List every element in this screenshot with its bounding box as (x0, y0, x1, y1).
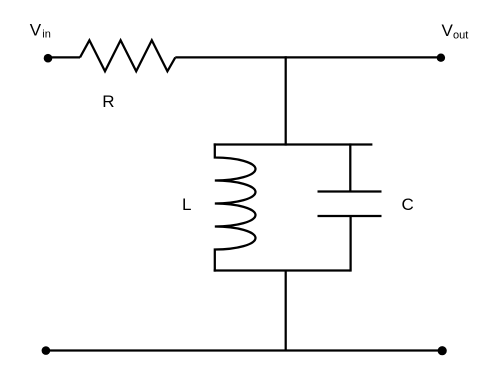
wire top rail: resistor to Vout terminal (175, 56, 441, 58)
wire junction drop: top rail to tank top (285, 56, 287, 145)
svg-text:L: L (182, 195, 191, 214)
resistor R (80, 40, 175, 71)
svg-text:R: R (102, 92, 114, 111)
wire input: Vin terminal to resistor (48, 56, 80, 58)
wire tank bottom (214, 269, 351, 271)
svg-text:in: in (42, 28, 51, 40)
svg-text:V: V (30, 20, 42, 39)
svg-text:V: V (442, 21, 454, 40)
node ground-right terminal (438, 346, 447, 355)
node Vin terminal (44, 54, 53, 63)
wire ground rail (46, 349, 442, 351)
node Vout terminal (437, 54, 445, 62)
capacitor C (318, 143, 382, 271)
node ground-left terminal (42, 346, 51, 355)
wire tank top (214, 143, 373, 145)
svg-text:C: C (402, 195, 414, 214)
inductor L (215, 143, 256, 271)
svg-text:out: out (453, 30, 468, 42)
wire bottom drop: tank bottom to ground rail (285, 271, 287, 351)
